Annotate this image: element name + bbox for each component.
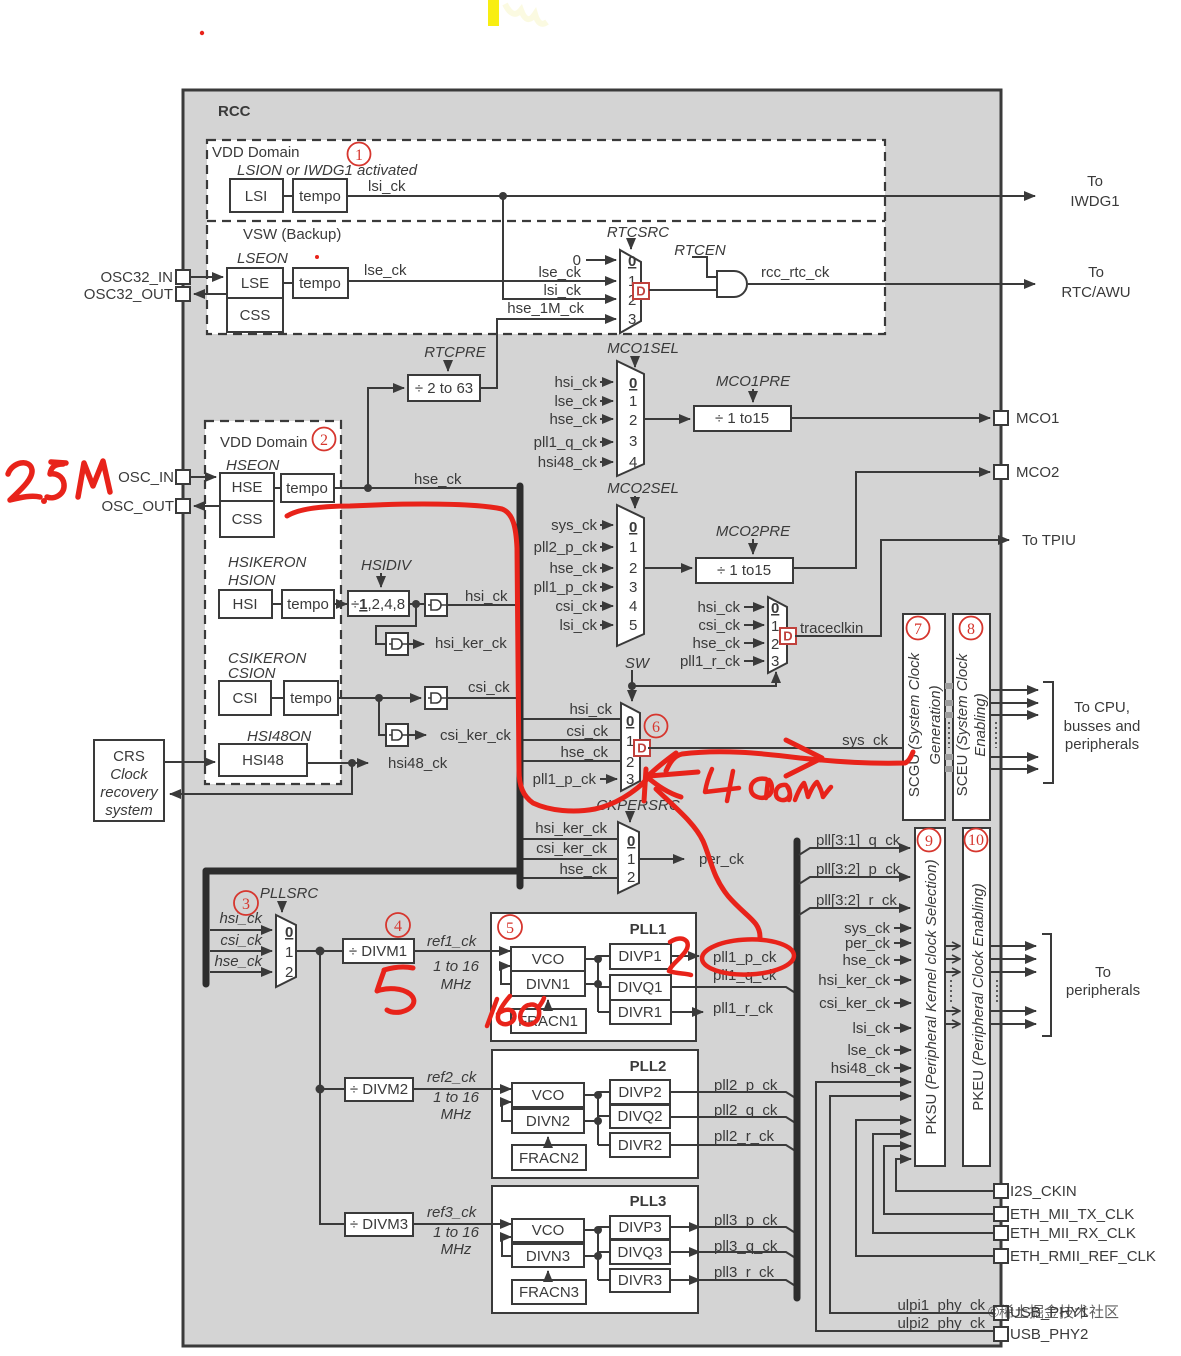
svg-text:hsi_ck: hsi_ck	[554, 374, 597, 391]
svg-text:lsi_ck: lsi_ck	[852, 1020, 890, 1037]
wire csi to gate	[338, 697, 379, 699]
svg-text:2: 2	[629, 412, 637, 429]
svg-text:ref1_ck: ref1_ck	[427, 933, 478, 950]
svg-text:HSI48: HSI48	[242, 752, 284, 769]
svg-text:1 to 16: 1 to 16	[433, 1224, 480, 1241]
svg-text:VCO: VCO	[532, 951, 565, 968]
svg-text:pll3_r_ck: pll3_r_ck	[714, 1264, 775, 1281]
pin ETH_RMII_REF_CLK	[994, 1249, 1008, 1263]
block PKEU	[963, 828, 990, 1166]
wire pll1_q_ck to bus	[671, 987, 797, 994]
svg-text:D: D	[637, 741, 646, 756]
svg-text:3: 3	[771, 653, 779, 670]
svg-text:DIVQ2: DIVQ2	[617, 1108, 662, 1125]
block PKSU	[915, 828, 945, 1166]
wire LSI-tempo	[283, 195, 293, 197]
svg-text:DIVQ3: DIVQ3	[617, 1244, 662, 1261]
svg-text:traceclkin: traceclkin	[800, 620, 863, 637]
D flag traceclkin	[780, 628, 796, 644]
svg-text:DIVN1: DIVN1	[526, 976, 570, 993]
svg-text:CRS: CRS	[113, 748, 145, 765]
wire hsi48 to CRS	[170, 763, 352, 794]
svg-text:1: 1	[627, 851, 635, 868]
svg-text:pll2_q_ck: pll2_q_ck	[714, 1102, 778, 1119]
tempo (LSE)	[293, 268, 348, 298]
svg-text:÷ 1 to15: ÷ 1 to15	[717, 562, 771, 579]
svg-text:hse_ck: hse_ck	[692, 635, 740, 652]
svg-text:SCEU (System Clock: SCEU (System Clock	[954, 652, 971, 796]
svg-text:peripherals: peripherals	[1066, 982, 1140, 999]
svg-text:hsi48_ck: hsi48_ck	[538, 454, 598, 471]
svg-text:©稀土掘金技术社区: ©稀土掘金技术社区	[988, 1304, 1119, 1321]
svg-text:5: 5	[506, 920, 514, 937]
css LSE	[227, 298, 283, 332]
fracn2	[512, 1145, 586, 1170]
svg-text:1: 1	[285, 944, 293, 961]
red annotation 5	[377, 967, 414, 1012]
stubs SCGU-SCEU	[945, 686, 953, 769]
svg-text:0: 0	[627, 833, 635, 850]
svg-text:4: 4	[394, 918, 402, 935]
svg-text:csi_ker_ck: csi_ker_ck	[440, 727, 511, 744]
wire lsi_ck to IWDG1	[347, 195, 1035, 197]
svg-text:hsi_ck: hsi_ck	[569, 701, 612, 718]
wires PKEU to peripherals	[990, 945, 1036, 947]
svg-text:1: 1	[355, 147, 363, 164]
svg-text:RTCSRC: RTCSRC	[607, 224, 669, 241]
svg-text:MCO1PRE: MCO1PRE	[716, 373, 791, 390]
svg-text:hsi_ker_ck: hsi_ker_ck	[435, 635, 507, 652]
pin I2S_CKIN	[994, 1184, 1008, 1198]
divn1	[511, 971, 585, 996]
svg-text:lsi_ck: lsi_ck	[559, 617, 597, 634]
svg-text:D: D	[783, 629, 792, 644]
svg-text:hse_1M_ck: hse_1M_ck	[507, 300, 584, 317]
svg-text:RTCPRE: RTCPRE	[424, 344, 486, 361]
oscillator LSE	[227, 268, 283, 298]
fracn3	[512, 1280, 586, 1304]
divp2	[610, 1080, 670, 1104]
svg-text:ref2_ck: ref2_ck	[427, 1069, 478, 1086]
wire vco out pll2	[584, 1092, 610, 1145]
svg-text:pll1_r_ck: pll1_r_ck	[713, 1000, 774, 1017]
svg-text:2: 2	[627, 869, 635, 886]
wire ETH_MII_RX loop	[873, 1134, 994, 1233]
svg-text:MHz: MHz	[441, 1106, 472, 1123]
svg-text:MCO1SEL: MCO1SEL	[607, 340, 679, 357]
svg-text:pll[3:2]_r_ck: pll[3:2]_r_ck	[816, 892, 897, 909]
svg-text:system: system	[105, 802, 153, 819]
svg-text:csi_ck: csi_ck	[566, 723, 608, 740]
bus vertical center	[517, 486, 524, 886]
svg-text:1: 1	[629, 393, 637, 410]
svg-text:7: 7	[914, 621, 922, 638]
VSW divider dashed line	[207, 220, 885, 222]
feedback wire pll2	[502, 1102, 512, 1121]
svg-text:sys_ck: sys_ck	[551, 517, 597, 534]
svg-text:3: 3	[628, 311, 636, 328]
svg-text:per_ck: per_ck	[845, 935, 891, 952]
wire pll2_p_ck	[670, 1092, 797, 1099]
svg-text:OSC32_OUT: OSC32_OUT	[84, 286, 173, 303]
wire D to AND	[649, 289, 717, 291]
svg-text:hsi_ker_ck: hsi_ker_ck	[818, 972, 890, 989]
block SCGU	[903, 614, 945, 820]
wire osc in	[190, 476, 216, 478]
svg-text:Generation): Generation)	[927, 685, 944, 764]
wire hsi48_ck	[307, 762, 352, 764]
svg-text:VDD Domain: VDD Domain	[212, 144, 300, 161]
svg-text:VCO: VCO	[532, 1222, 565, 1239]
bus horizontal to PLLSRC	[206, 868, 520, 875]
RCC outer block	[183, 90, 1001, 1346]
svg-text:MHz: MHz	[441, 976, 472, 993]
divr1	[610, 1000, 671, 1024]
divn2	[512, 1109, 584, 1133]
PLL3 block	[492, 1186, 698, 1313]
svg-text:ulpi1_phy_ck: ulpi1_phy_ck	[897, 1297, 985, 1314]
svg-text:hsi_ker_ck: hsi_ker_ck	[535, 820, 607, 837]
svg-text:USB_PHY2: USB_PHY2	[1010, 1326, 1088, 1343]
svg-text:hse_ck: hse_ck	[549, 560, 597, 577]
svg-text:hsi_ck: hsi_ck	[465, 588, 508, 605]
svg-text:4: 4	[629, 598, 637, 615]
bus left vertical	[203, 871, 210, 984]
VDD Domain dashed box (backup domain)	[207, 140, 885, 334]
svg-text:pll[3:2]_p_ck: pll[3:2]_p_ck	[816, 861, 901, 878]
red arrow at SW mux	[644, 753, 698, 801]
wire HSE-tempo	[274, 487, 281, 489]
svg-text:DIVP1: DIVP1	[618, 948, 661, 965]
svg-text:HSIKERON: HSIKERON	[228, 554, 307, 571]
wire to MCO1 pad	[791, 417, 990, 419]
pin MCO2	[994, 465, 1008, 479]
wire per_ck	[639, 858, 684, 860]
svg-text:hsi_ck: hsi_ck	[697, 599, 740, 616]
block SCEU	[953, 614, 990, 820]
svg-text:tempo: tempo	[299, 275, 341, 292]
svg-text:recovery: recovery	[100, 784, 159, 801]
svg-text:0: 0	[628, 253, 636, 270]
wire vco out pll3	[584, 1227, 610, 1280]
svg-text:LSI: LSI	[245, 188, 268, 205]
red annotation long curve from HSE down the bus	[287, 504, 647, 811]
svg-text:Enabling): Enabling)	[972, 693, 989, 756]
svg-text:FRACN1: FRACN1	[518, 1013, 578, 1030]
wire pll3_q_ck	[670, 1251, 700, 1253]
svg-text:DIVP2: DIVP2	[618, 1084, 661, 1101]
red dot small	[315, 255, 319, 259]
svg-text:MCO1: MCO1	[1016, 410, 1059, 427]
red chevron on sys_ck	[786, 740, 822, 776]
PLL1 block	[491, 913, 696, 1041]
pin ETH_MII_TX_CLK	[994, 1207, 1008, 1221]
svg-text:pll2_p_ck: pll2_p_ck	[714, 1077, 778, 1094]
wire pll3_p_ck	[670, 1226, 700, 1228]
wire ETH_RMII_REF loop	[856, 1120, 994, 1256]
svg-text:OSC_OUT: OSC_OUT	[101, 498, 174, 515]
svg-text:pll2_r_ck: pll2_r_ck	[714, 1128, 775, 1145]
wire lse_ck	[348, 280, 616, 282]
svg-text:DIVR1: DIVR1	[618, 1004, 662, 1021]
wire to DIVM2/3	[320, 951, 345, 1224]
feedback wire pll1	[501, 966, 511, 984]
svg-text:peripherals: peripherals	[1065, 736, 1139, 753]
wire rcc_rtc_ck	[748, 283, 1035, 285]
svg-text:MCO2: MCO2	[1016, 464, 1059, 481]
svg-text:3: 3	[629, 579, 637, 596]
red circled numbers	[234, 143, 988, 940]
svg-text:HSE: HSE	[232, 479, 263, 496]
wire LSE-tempo	[283, 282, 293, 284]
vco PLL2	[512, 1083, 584, 1107]
svg-text:tempo: tempo	[286, 480, 328, 497]
svg-text:csi_ck: csi_ck	[698, 617, 740, 634]
svg-text:HSI: HSI	[232, 596, 257, 613]
wire pllsrc out	[296, 950, 343, 952]
svg-text:1: 1	[629, 539, 637, 556]
svg-text:2: 2	[629, 560, 637, 577]
svg-text:8: 8	[967, 621, 975, 638]
bus right vertical	[794, 841, 801, 1298]
svg-text:LSE: LSE	[241, 275, 269, 292]
yellow highlight mark	[488, 0, 499, 26]
svg-text:3: 3	[626, 771, 634, 788]
vco PLL3	[512, 1219, 584, 1242]
svg-text:To CPU,: To CPU,	[1074, 699, 1130, 716]
svg-text:I2S_CKIN: I2S_CKIN	[1010, 1183, 1077, 1200]
svg-text:MCO2PRE: MCO2PRE	[716, 523, 791, 540]
svg-text:6: 6	[652, 719, 660, 736]
svg-text:2: 2	[320, 432, 328, 449]
red check 2	[669, 939, 691, 975]
divn3	[512, 1244, 584, 1267]
svg-text:DIVN3: DIVN3	[526, 1248, 570, 1265]
wire osc out	[194, 505, 220, 507]
css HSE	[220, 501, 274, 537]
divider DIVM2	[345, 1078, 413, 1101]
svg-text:DIVQ1: DIVQ1	[617, 979, 662, 996]
svg-text:0: 0	[573, 252, 581, 269]
red annotation wavy line to SCGU	[666, 752, 913, 771]
svg-text:0: 0	[629, 375, 637, 392]
svg-text:1 to 16: 1 to 16	[433, 1089, 480, 1106]
gate csi_ck	[425, 687, 447, 709]
wire traceclkin to TPIU	[795, 540, 1009, 636]
svg-text:OSC32_IN: OSC32_IN	[100, 269, 173, 286]
tempo (HSE)	[281, 474, 334, 502]
svg-text:tempo: tempo	[290, 690, 332, 707]
svg-text:To: To	[1087, 173, 1103, 190]
svg-text:pll[3:1]_q_ck: pll[3:1]_q_ck	[816, 832, 901, 849]
svg-text:÷ DIVM2: ÷ DIVM2	[350, 1081, 408, 1098]
svg-text:PLL1: PLL1	[630, 921, 667, 938]
svg-text:MCO2SEL: MCO2SEL	[607, 480, 679, 497]
svg-text:÷ 2 to 63: ÷ 2 to 63	[415, 380, 473, 397]
svg-text:pll1_p_ck: pll1_p_ck	[533, 771, 597, 788]
svg-text:LSEON: LSEON	[237, 250, 288, 267]
svg-text:tempo: tempo	[299, 188, 341, 205]
divp3	[610, 1216, 670, 1239]
mux traceclkin	[768, 597, 787, 673]
wire to MCO2 pad	[793, 472, 990, 568]
svg-text:pll1_r_ck: pll1_r_ck	[680, 653, 741, 670]
svg-text:DIVR2: DIVR2	[618, 1137, 662, 1154]
PLL2 block	[492, 1050, 698, 1178]
svg-text:lse_ck: lse_ck	[554, 393, 597, 410]
svg-text:pll1_q_ck: pll1_q_ck	[534, 434, 598, 451]
svg-text:csi_ck: csi_ck	[555, 598, 597, 615]
svg-text:csi_ker_ck: csi_ker_ck	[819, 995, 890, 1012]
svg-text:lse_ck: lse_ck	[847, 1042, 890, 1059]
svg-text:VCO: VCO	[532, 1087, 565, 1104]
wire pll2_r_ck	[670, 1145, 797, 1152]
svg-text:rcc_rtc_ck: rcc_rtc_ck	[761, 264, 830, 281]
svg-text:CSS: CSS	[240, 307, 271, 324]
oscillator LSI	[230, 179, 283, 212]
D flag RTCSRC	[633, 283, 649, 299]
svg-text:VDD Domain: VDD Domain	[220, 434, 308, 451]
red curve to pll1_p_ck	[656, 789, 760, 937]
fracn1	[511, 1009, 586, 1033]
svg-text:SCGU (System Clock: SCGU (System Clock	[906, 651, 923, 797]
svg-text:5: 5	[629, 617, 637, 634]
svg-text:1 to 16: 1 to 16	[433, 958, 480, 975]
divq2	[610, 1105, 670, 1128]
svg-text:PLLSRC: PLLSRC	[260, 885, 319, 902]
divider DIVM3	[345, 1213, 413, 1236]
node lsi junction	[499, 192, 507, 200]
wire pll1_r_ck	[671, 1011, 703, 1013]
svg-text:PKSU (Peripheral Kernel clock: PKSU (Peripheral Kernel clock Selection)	[923, 859, 940, 1134]
wire mux to MCO2PRE	[644, 567, 692, 569]
svg-text:ref3_ck: ref3_ck	[427, 1204, 478, 1221]
VDD Domain dashed box 2	[205, 421, 341, 784]
wire pll2_q_ck	[670, 1117, 797, 1124]
svg-text:CSS: CSS	[232, 511, 263, 528]
svg-text:pll1_p_ck: pll1_p_ck	[534, 579, 598, 596]
and-gate RTCEN	[717, 271, 747, 297]
svg-text:ulpi2_phy_ck: ulpi2_phy_ck	[897, 1315, 985, 1332]
bracket CPU	[1043, 682, 1053, 783]
pin USB_PHY1	[994, 1306, 1008, 1320]
divp1	[610, 944, 671, 969]
svg-text:csi_ck: csi_ck	[468, 679, 510, 696]
svg-text:tempo: tempo	[287, 596, 329, 613]
svg-text:0: 0	[771, 600, 779, 617]
wire pll1_p_ck	[671, 955, 699, 957]
wire mux to MCO1PRE	[644, 418, 690, 420]
tempo (LSI)	[293, 179, 347, 212]
svg-text:RTC/AWU: RTC/AWU	[1061, 284, 1130, 301]
svg-text:D: D	[636, 284, 645, 299]
wire sys to traceclkin bottom	[632, 672, 776, 686]
svg-text:HSEON: HSEON	[226, 457, 280, 474]
wire osc32 in	[190, 276, 223, 278]
svg-text:PLL3: PLL3	[630, 1193, 667, 1210]
svg-text:FRACN2: FRACN2	[519, 1150, 579, 1167]
stubs PKSU-PKEU	[945, 945, 959, 947]
svg-text:ETH_MII_RX_CLK: ETH_MII_RX_CLK	[1010, 1225, 1136, 1242]
svg-text:To: To	[1088, 264, 1104, 281]
svg-text:HSION: HSION	[228, 572, 276, 589]
wires SCEU to CPU	[990, 689, 1038, 691]
svg-text:hse_ck: hse_ck	[214, 953, 263, 970]
wire ETH_MII_TX loop	[884, 1146, 994, 1214]
red ellipse around pll1_p_ck	[701, 938, 794, 976]
svg-text:MHz: MHz	[441, 1241, 472, 1258]
pin MCO1	[994, 411, 1008, 425]
divr2	[610, 1133, 670, 1157]
svg-text:lsi_ck: lsi_ck	[368, 178, 406, 195]
svg-text:Clock: Clock	[110, 766, 149, 783]
svg-text:VSW (Backup): VSW (Backup)	[243, 226, 341, 243]
svg-text:ETH_RMII_REF_CLK: ETH_RMII_REF_CLK	[1010, 1248, 1156, 1265]
svg-text:HSIDIV: HSIDIV	[361, 557, 413, 574]
svg-text:pll3_p_ck: pll3_p_ck	[714, 1212, 778, 1229]
svg-text:DIVP3: DIVP3	[618, 1219, 661, 1236]
svg-text:hse_ck: hse_ck	[842, 952, 890, 969]
svg-text:CSION: CSION	[228, 665, 276, 682]
wire I2S_CKIN loop	[896, 1159, 994, 1191]
wire lsi to rtcsrc	[503, 196, 616, 299]
D flag SW	[634, 740, 650, 756]
red annotation 400m	[705, 769, 831, 801]
wire vco out pll1	[585, 956, 610, 1012]
svg-text:To: To	[1095, 964, 1111, 981]
CRS block	[94, 740, 164, 821]
svg-text:÷ DIVM3: ÷ DIVM3	[350, 1216, 408, 1233]
svg-text:CSI: CSI	[232, 690, 257, 707]
svg-text:pll3_q_ck: pll3_q_ck	[714, 1238, 778, 1255]
svg-text:hse_ck: hse_ck	[559, 861, 607, 878]
wire osc32 out	[194, 293, 227, 295]
svg-text:hse_ck: hse_ck	[560, 744, 608, 761]
svg-text:÷ DIVM1: ÷ DIVM1	[349, 943, 407, 960]
svg-text:0: 0	[629, 519, 637, 536]
oscillator HSE	[220, 473, 274, 501]
svg-text:hsi48_ck: hsi48_ck	[831, 1060, 891, 1077]
svg-text:1: 1	[771, 618, 779, 635]
wire hse to RTCPRE	[368, 388, 404, 488]
svg-text:sys_ck: sys_ck	[842, 732, 888, 749]
gate hsi_ker_ck	[376, 604, 416, 644]
gate hsi_ck	[425, 594, 447, 616]
svg-text:÷1,2,4,8: ÷1,2,4,8	[351, 596, 405, 613]
svg-text:PKEU (Peripheral Clock Enablin: PKEU (Peripheral Clock Enabling)	[970, 883, 987, 1111]
svg-text:SW: SW	[625, 655, 651, 672]
svg-text:3: 3	[629, 433, 637, 450]
wire ulpi2_phy_ck loop	[816, 1082, 994, 1331]
divq3	[610, 1240, 670, 1264]
bracket peripherals	[1042, 934, 1051, 1036]
wire hse_ck to bus	[334, 487, 517, 489]
svg-text:pll1_p_ck: pll1_p_ck	[713, 949, 777, 966]
red annotation 2.5M	[8, 461, 110, 504]
vco PLL1	[511, 947, 585, 971]
svg-text:3: 3	[242, 896, 250, 913]
wire hse_1M_ck	[480, 319, 616, 388]
svg-text:FRACN3: FRACN3	[519, 1284, 579, 1301]
svg-text:9: 9	[925, 833, 933, 850]
wire sys_ck to SCGU	[648, 747, 903, 749]
svg-text:DIVR3: DIVR3	[618, 1272, 662, 1289]
svg-text:RCC: RCC	[218, 103, 251, 120]
pin USB_PHY2	[994, 1327, 1008, 1341]
svg-text:OSC_IN: OSC_IN	[118, 469, 174, 486]
divq1	[610, 975, 671, 1000]
red dot top	[200, 31, 204, 35]
